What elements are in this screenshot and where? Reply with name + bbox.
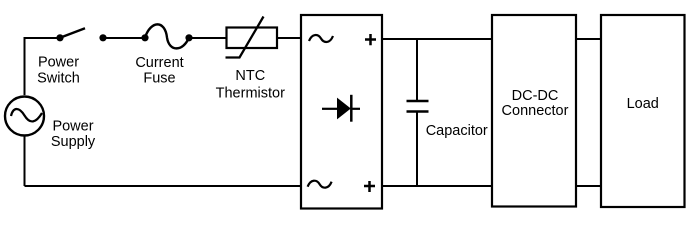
svg-text:Switch: Switch <box>37 71 80 87</box>
bridge AC symbol top <box>309 35 333 42</box>
svg-text:Thermistor: Thermistor <box>216 85 285 101</box>
DC-DC connector box <box>492 15 576 207</box>
bridge plus symbol bottom <box>364 181 375 192</box>
top rail bridge to DC-DC <box>382 38 492 40</box>
diode cathode lead <box>351 108 360 110</box>
svg-text:DC-DC: DC-DC <box>512 88 559 104</box>
wire from power supply bottom to bottom rail corner <box>24 135 26 186</box>
NTC thermistor body <box>227 28 278 49</box>
power supply AC source circle <box>5 97 44 136</box>
svg-text:Fuse: Fuse <box>143 71 175 87</box>
switch node dot right <box>99 34 106 41</box>
bridge AC symbol bottom <box>308 181 332 188</box>
svg-text:Supply: Supply <box>51 134 96 150</box>
bottom rail bridge to DC-DC <box>382 185 492 187</box>
switch node dot left <box>56 34 63 41</box>
svg-text:Connector: Connector <box>502 103 569 119</box>
top wire DC-DC to load <box>576 38 601 40</box>
wire from power supply top to switch <box>25 38 59 95</box>
diode anode lead <box>322 108 338 110</box>
wire switch to fuse <box>103 37 145 39</box>
fuse node dot left <box>141 34 148 41</box>
fuse node dot right <box>185 34 192 41</box>
load box <box>601 15 685 207</box>
diode cathode bar <box>350 95 353 122</box>
svg-text:NTC: NTC <box>235 68 265 84</box>
bottom rail wire from corner to bridge rectifier <box>25 185 302 187</box>
NTC thermistor diagonal stroke <box>226 17 264 58</box>
svg-text:Load: Load <box>627 96 659 112</box>
svg-text:Power: Power <box>38 55 79 71</box>
bridge rectifier box <box>301 15 382 209</box>
svg-text:Power: Power <box>52 119 93 135</box>
wire fuse to thermistor <box>189 37 226 39</box>
svg-text:Current: Current <box>135 55 183 71</box>
bridge plus symbol top <box>365 34 376 45</box>
current fuse S-curve <box>145 24 189 48</box>
capacitor top lead <box>416 39 418 101</box>
wire thermistor to bridge rectifier <box>277 37 301 39</box>
bottom wire DC-DC to load <box>576 185 601 187</box>
svg-text:Capacitor: Capacitor <box>426 123 488 139</box>
capacitor bottom lead <box>416 112 418 187</box>
switch blade (open) <box>60 28 85 38</box>
capacitor plates <box>407 101 429 112</box>
diode triangle <box>338 99 351 119</box>
power supply sine wave <box>11 109 42 121</box>
